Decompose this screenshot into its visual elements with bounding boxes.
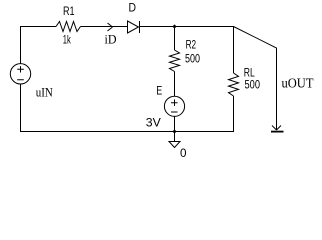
svg-text:D: D: [129, 1, 137, 15]
svg-text:1k: 1k: [63, 33, 72, 47]
svg-text:uOUT: uOUT: [282, 77, 314, 92]
svg-text:E: E: [156, 84, 162, 98]
svg-text:iD: iD: [105, 32, 117, 47]
svg-text:500: 500: [245, 78, 261, 92]
svg-text:uIN: uIN: [36, 85, 54, 100]
svg-text:3V: 3V: [146, 116, 161, 130]
svg-text:R2: R2: [186, 38, 197, 52]
svg-text:R1: R1: [63, 4, 75, 18]
svg-text:500: 500: [185, 52, 200, 66]
svg-text:0: 0: [180, 146, 187, 160]
